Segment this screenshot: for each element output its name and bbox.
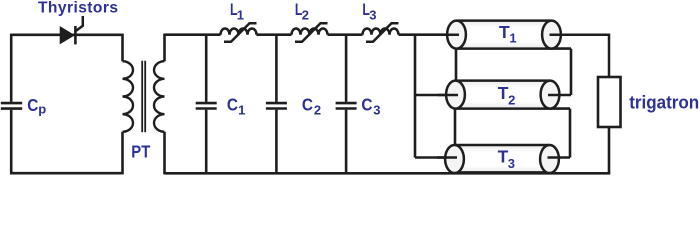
svg-text:3: 3 <box>369 7 376 22</box>
wire: top bus segment 2 <box>257 33 292 36</box>
thyristor <box>60 16 83 44</box>
svg-text:PT: PT <box>131 142 150 162</box>
wire: T1 bottom extension right <box>552 47 572 50</box>
transformer primary winding <box>123 61 134 132</box>
svg-text:Thyristors: Thyristors <box>38 0 118 17</box>
wire: connector T2 bottom to T3 top (left) <box>454 109 457 145</box>
svg-text:trigatron: trigatron <box>629 91 699 112</box>
capacitor Cp <box>1 103 22 109</box>
transformer secondary stub top <box>163 34 166 62</box>
svg-text:3: 3 <box>373 103 380 118</box>
flash lamp T2 <box>438 81 571 109</box>
wire: T2 left feed stub <box>415 94 456 97</box>
wire: connector T1 bottom to T2 top (left) <box>455 49 458 81</box>
L1 adjuster slash <box>224 23 257 42</box>
svg-text:C: C <box>227 94 238 114</box>
svg-text:C: C <box>27 95 38 115</box>
svg-text:C: C <box>361 94 372 114</box>
svg-text:1: 1 <box>509 31 516 46</box>
transformer core <box>142 61 145 133</box>
inductor L3 <box>363 29 399 35</box>
svg-text:1: 1 <box>238 103 245 118</box>
wire: left loop bottom <box>10 172 123 175</box>
svg-text:1: 1 <box>237 7 244 22</box>
wire: top bus segment 1 <box>165 33 221 36</box>
wire: left rail down from top bus <box>414 35 417 158</box>
wire: connector T2 bottom to T3 right electrode <box>569 109 572 158</box>
inductor L1 <box>221 29 257 35</box>
wire: left loop left side upper <box>10 34 13 102</box>
transformer secondary stub bottom <box>163 132 166 175</box>
wire: T3 left feed stub <box>415 156 455 159</box>
svg-text:2: 2 <box>302 7 309 22</box>
svg-text:3: 3 <box>508 156 515 171</box>
transformer U primary stub top <box>121 34 124 62</box>
svg-text:p: p <box>38 102 46 117</box>
capacitor C3 branch <box>345 35 348 102</box>
L2 adjuster slash <box>295 23 328 42</box>
capacitor C1 branch <box>205 35 208 102</box>
svg-text:2: 2 <box>314 103 321 118</box>
wire: top bus segment 3 <box>328 33 363 36</box>
flash lamp T3 <box>437 145 570 173</box>
transformer secondary winding <box>154 61 165 132</box>
flash lamp T1 <box>440 21 609 77</box>
capacitor C2 branch <box>275 35 278 102</box>
wire: left loop left side lower <box>10 110 13 175</box>
L3 adjuster slash <box>366 23 399 42</box>
svg-text:2: 2 <box>508 92 515 107</box>
wire: T2 bottom extension right <box>550 107 570 110</box>
wire: connector T1 bottom to T2 right electrode <box>570 49 573 95</box>
inductor L2 <box>292 29 328 35</box>
trigatron <box>598 77 621 127</box>
svg-text:C: C <box>302 94 313 114</box>
wire: trigatron bottom lead <box>608 127 611 173</box>
wire: top bus segment 4 to T1 <box>399 33 457 36</box>
transformer primary stub bottom <box>121 132 124 175</box>
wire: left loop top <box>11 33 122 36</box>
wire: bottom bus <box>165 172 611 175</box>
svg-text:T: T <box>499 22 510 42</box>
